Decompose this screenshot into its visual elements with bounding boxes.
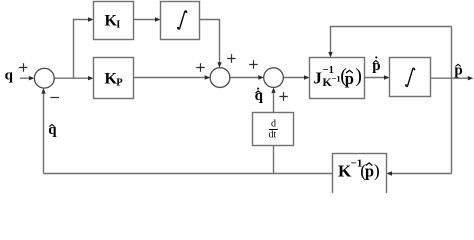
- svg-text:d: d: [271, 119, 276, 130]
- svg-text:dt: dt: [269, 129, 277, 140]
- svg-text:p: p: [365, 161, 374, 180]
- svg-text:I: I: [116, 20, 120, 31]
- svg-text:J: J: [313, 69, 322, 88]
- svg-text:q: q: [255, 88, 264, 104]
- svg-text:p: p: [372, 58, 380, 74]
- svg-text:): ): [374, 160, 380, 181]
- svg-text:): ): [355, 65, 362, 87]
- svg-text:p: p: [345, 69, 354, 88]
- svg-text:q: q: [5, 68, 14, 84]
- svg-text:q: q: [48, 122, 57, 138]
- svg-text:P: P: [116, 78, 123, 89]
